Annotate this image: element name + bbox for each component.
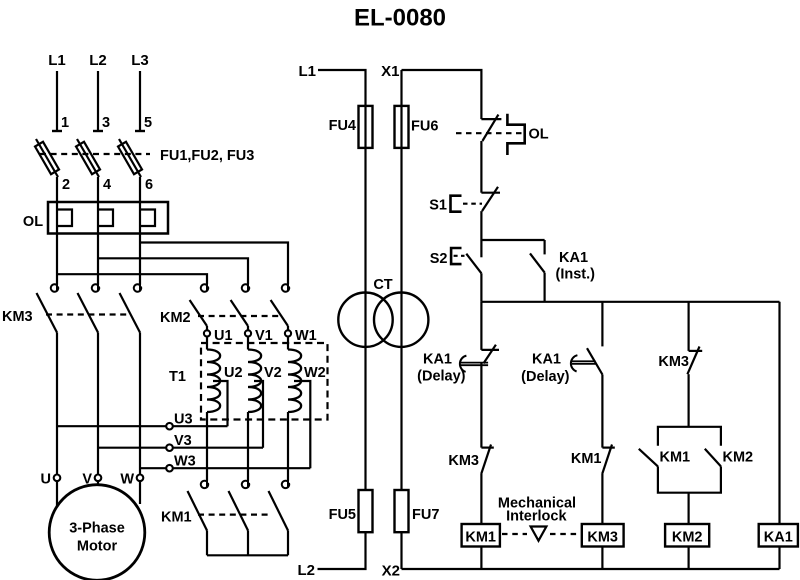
KM2 pole 1 terminal	[201, 284, 208, 291]
svg-text:FU6: FU6	[411, 119, 438, 135]
button S2 actuator	[451, 248, 461, 264]
svg-text:OL: OL	[529, 127, 549, 143]
terminal V motor	[97, 475, 99, 487]
transformer CT primary circle	[338, 293, 392, 347]
wire phase 2 through OL	[97, 177, 99, 285]
svg-text:EL-0080: EL-0080	[354, 5, 446, 32]
svg-text:KA1: KA1	[764, 530, 793, 546]
wire tap V2	[254, 381, 263, 448]
svg-text:KM1: KM1	[660, 450, 691, 466]
wire S2 down	[480, 273, 482, 302]
KM3 pole 2 blade	[78, 293, 99, 333]
wire bus U3	[57, 425, 228, 427]
svg-text:L1: L1	[48, 52, 66, 69]
fuse FU6	[395, 106, 409, 148]
linkage KM3 dashed	[46, 313, 129, 315]
fuse-switch FU3 blade	[119, 139, 141, 177]
KM3 pole 2 terminal	[92, 284, 99, 291]
svg-text:W2: W2	[304, 365, 326, 381]
transformer CT secondary circle	[374, 293, 428, 347]
terminal bar L1	[52, 130, 62, 132]
wire X1 to ladder	[402, 70, 482, 119]
wire OL to S1	[480, 141, 482, 193]
KM2 pole 3 terminal	[282, 284, 289, 291]
linkage FU1-FU3 dashed	[40, 153, 150, 155]
svg-text:V3: V3	[174, 433, 192, 449]
wire phase3 branch to KM2 pole3	[140, 243, 288, 285]
fuse-switch FU2 blade	[77, 139, 99, 177]
KM2 pole 3 blade	[271, 300, 288, 326]
T1 winding 3	[288, 350, 301, 413]
wire FU5 to L2	[318, 532, 366, 569]
wire KM1 pole 3 down	[287, 531, 289, 556]
svg-text:OL: OL	[23, 214, 43, 230]
wire U2 coil top lead	[206, 337, 208, 350]
terminal U3	[166, 423, 173, 430]
KM2 pole 1 blade	[190, 300, 207, 326]
motor M 3-phase	[49, 485, 145, 580]
svg-text:Motor: Motor	[77, 539, 118, 555]
svg-text:L2: L2	[89, 52, 107, 69]
svg-text:3-Phase: 3-Phase	[69, 521, 125, 537]
svg-text:KM1: KM1	[465, 530, 496, 546]
svg-text:KM3: KM3	[658, 354, 689, 370]
wire L2 drop	[97, 71, 99, 131]
wire KM1 pole 1 down	[206, 531, 208, 556]
KM2 pole 2 terminal	[242, 284, 249, 291]
svg-text:KM1: KM1	[571, 451, 602, 467]
wire bus W3	[140, 467, 310, 469]
svg-text:KM3: KM3	[2, 309, 33, 325]
T1 winding 2	[248, 350, 261, 413]
OL heater element 2	[98, 210, 113, 227]
wire L1 drop	[56, 71, 58, 131]
KA1 delay timing arc 2	[571, 355, 578, 371]
wire tap W2	[294, 381, 310, 468]
wire branch3 top	[687, 302, 689, 351]
terminal V1	[245, 330, 251, 336]
OL heater element 3	[140, 210, 155, 227]
svg-text:KA1: KA1	[559, 250, 588, 266]
svg-text:X2: X2	[382, 563, 400, 580]
wire KM3 pole 1 to motor	[56, 333, 58, 475]
svg-text:W1: W1	[295, 328, 317, 344]
svg-text:1: 1	[61, 115, 69, 131]
KM3 pole 3 terminal	[134, 284, 141, 291]
svg-text:Interlock: Interlock	[506, 508, 567, 524]
svg-text:X1: X1	[381, 63, 399, 80]
wire branch2 mid	[601, 375, 603, 448]
KM3 pole 3 blade	[120, 293, 141, 333]
wire phase 1 through OL	[56, 177, 58, 285]
svg-text:KM2: KM2	[723, 450, 754, 466]
svg-text:FU1,FU2, FU3: FU1,FU2, FU3	[160, 148, 254, 164]
wire KM1 star bar	[207, 554, 288, 556]
svg-text:L1: L1	[298, 63, 316, 80]
svg-text:S2: S2	[430, 251, 448, 267]
svg-text:L3: L3	[131, 52, 149, 69]
T1 winding 1	[207, 350, 220, 413]
svg-text:U3: U3	[174, 412, 193, 428]
coil KA1	[759, 524, 798, 547]
svg-text:W: W	[120, 472, 134, 488]
KM2 pole 2 blade	[231, 300, 248, 326]
wire V2 coil top lead	[247, 337, 249, 350]
OL mech link dashed	[456, 132, 524, 134]
svg-text:KM2: KM2	[160, 310, 191, 326]
wire bus V3	[98, 447, 263, 449]
wire KM3 pole 2 to motor	[97, 333, 99, 475]
svg-text:KM3: KM3	[587, 530, 618, 546]
wire T1 winding 1 bottom to KM1 pole	[206, 412, 208, 481]
terminal W motor	[139, 475, 141, 505]
contact S1 NC	[481, 192, 500, 194]
svg-text:CT: CT	[373, 277, 392, 293]
svg-text:V2: V2	[264, 365, 282, 381]
wire S1 to S2	[480, 211, 482, 240]
fuse FU4	[359, 106, 373, 148]
wire branch2 top	[601, 302, 603, 347]
contact KM2 parallel NO	[705, 449, 721, 467]
wire KM2 coil to bus	[687, 547, 689, 570]
terminal U1	[204, 330, 210, 336]
svg-text:4: 4	[103, 177, 111, 193]
svg-text:T1: T1	[169, 369, 186, 385]
svg-text:2: 2	[62, 177, 70, 193]
OL heater hook	[507, 114, 524, 155]
svg-text:S1: S1	[429, 198, 447, 214]
contact KA1 delay NC timed	[481, 349, 499, 351]
terminal U motor	[56, 475, 58, 507]
KM1 pole 1 blade	[188, 491, 208, 531]
wire tap U2	[213, 381, 228, 426]
KA1 delay timing arc	[460, 356, 467, 372]
terminal W1	[285, 330, 291, 336]
svg-text:V1: V1	[255, 328, 273, 344]
fuse FU5	[359, 490, 373, 532]
contact KM3 aux seal	[689, 350, 703, 352]
svg-text:(Inst.): (Inst.)	[556, 267, 596, 283]
button S1 actuator	[451, 196, 462, 212]
contact KA1 delay NO timed	[587, 348, 602, 374]
wire phase1 branch to KM2 pole1	[57, 274, 207, 284]
overload OL box	[48, 202, 168, 234]
coil KM3	[582, 524, 624, 547]
contact OL NC	[481, 118, 501, 120]
wire branch3 to coil	[687, 493, 689, 524]
svg-text:KM3: KM3	[448, 453, 479, 469]
svg-text:KM2: KM2	[672, 530, 703, 546]
wire KM1 coil to bus	[480, 547, 482, 570]
OL heater element 1	[57, 210, 72, 227]
svg-text:(Delay): (Delay)	[417, 369, 466, 385]
contact S2 NO	[480, 240, 482, 257]
wire W2 coil top lead	[287, 337, 289, 350]
KM1 pole 2 terminal	[242, 481, 249, 488]
KM3 pole 1 blade	[37, 293, 58, 333]
fuse FU7	[395, 490, 409, 532]
wire L3 drop	[139, 71, 141, 131]
KM1 pole 1 terminal	[201, 481, 208, 488]
linkage KM2 dashed	[198, 315, 281, 317]
wire branch top	[481, 239, 544, 241]
svg-text:3: 3	[102, 115, 110, 131]
svg-text:FU7: FU7	[412, 507, 439, 523]
wire FU7 to X2	[400, 532, 402, 569]
svg-text:U1: U1	[214, 328, 233, 344]
terminal bar L2	[93, 130, 103, 132]
svg-text:5: 5	[144, 115, 152, 131]
wire L1 to FU4 rail	[318, 70, 366, 490]
terminal V3	[166, 444, 173, 451]
terminal bar L3	[135, 130, 145, 132]
coil KM2	[665, 524, 709, 547]
svg-text:L2: L2	[297, 562, 315, 579]
wire branch1 mid	[480, 363, 482, 447]
contact KM3 NC aux	[481, 447, 493, 449]
svg-text:6: 6	[145, 177, 153, 193]
svg-text:FU5: FU5	[329, 507, 356, 523]
wire branch1 top	[480, 302, 482, 350]
svg-text:(Delay): (Delay)	[521, 369, 570, 385]
svg-text:KA1: KA1	[423, 351, 452, 367]
svg-text:U: U	[41, 472, 51, 488]
KM1 pole 3 blade	[269, 491, 289, 531]
wire T1 winding 3 bottom to KM1 pole	[287, 412, 289, 481]
linkage KM1 dashed	[198, 513, 272, 515]
wire T1 winding 2 bottom to KM1 pole	[247, 412, 249, 481]
wire control bus	[481, 301, 779, 303]
contact KM1 NC aux	[602, 447, 614, 449]
coil KM1	[462, 524, 500, 547]
KM3 pole 1 terminal	[51, 284, 58, 291]
svg-text:KM1: KM1	[161, 510, 192, 526]
contact KM1 parallel NO	[639, 449, 658, 467]
wire branch1 to coil	[480, 474, 482, 524]
wire branch4	[778, 302, 780, 524]
wire KA1 inst down	[543, 273, 545, 302]
mechanical interlock triangle	[531, 527, 547, 541]
svg-text:KA1: KA1	[532, 351, 561, 367]
wire parallel box bottom	[658, 466, 721, 492]
svg-text:FU4: FU4	[329, 118, 356, 134]
wire KM3 coil to bus	[601, 547, 603, 570]
mechanical interlock dashed link	[502, 533, 527, 535]
wire X1 rail	[400, 70, 402, 490]
svg-text:U2: U2	[224, 365, 243, 381]
wire branch2 to coil	[601, 474, 603, 524]
terminal W3	[166, 465, 173, 472]
KM1 pole 2 blade	[229, 491, 249, 531]
wire phase 3 through OL	[139, 177, 141, 285]
wire branch3 mid	[687, 374, 689, 427]
wire X2 bottom bus	[402, 568, 780, 570]
KM1 pole 3 terminal	[282, 481, 289, 488]
svg-text:W3: W3	[174, 454, 196, 470]
fuse-switch FU1 blade	[36, 139, 58, 177]
wire phase2 branch to KM2 pole2	[98, 258, 248, 284]
wire KA1 coil to bus	[778, 547, 780, 570]
transformer T1 dashed box	[201, 343, 328, 420]
wire KM1 pole 2 down	[247, 531, 249, 556]
contact KA1 instantaneous NO	[543, 240, 545, 254]
wire KM3 pole 3 to motor	[139, 333, 141, 475]
wire parallel box top	[658, 427, 721, 446]
